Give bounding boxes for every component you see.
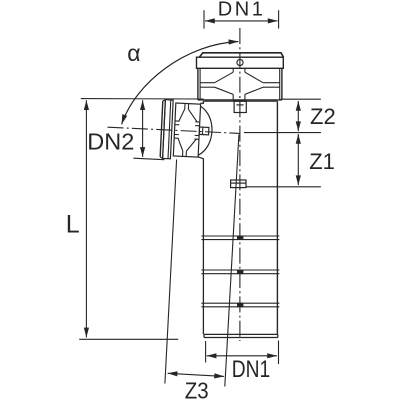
svg-text:DN2: DN2 [87, 128, 134, 154]
DN2 bottom extension line [133, 158, 164, 160]
main centerline [239, 28, 241, 341]
branch seal rails [175, 120, 179, 122]
svg-text:L: L [66, 210, 80, 238]
branch face band edges [163, 100, 166, 102]
branch seal flares [179, 109, 185, 122]
DN1 top extension lines [204, 10, 279, 28]
Z3 left extension line [165, 160, 177, 384]
branch body outline [173, 103, 200, 157]
pipe rib 1 [201, 236, 279, 240]
top socket flange [197, 57, 284, 68]
branch flange [163, 100, 174, 159]
svg-text:Z2: Z2 [310, 104, 336, 129]
DN1 top dimension line [205, 20, 278, 22]
branch socket [160, 100, 213, 161]
pipe rib 2 [201, 270, 279, 274]
top socket stem [234, 101, 246, 112]
branch seal neck [184, 103, 186, 108]
svg-text:DN1: DN1 [218, 0, 266, 20]
branch saddle arc [198, 106, 213, 156]
L and DN2 top extension line [81, 98, 204, 100]
branch centerline [108, 127, 241, 133]
top socket seal neck [233, 68, 245, 100]
DN1 bottom dimension line [207, 355, 277, 357]
branch face line [160, 101, 163, 157]
L bottom extension line [79, 338, 178, 340]
svg-text:DN1: DN1 [232, 355, 270, 383]
L dimension line [85, 100, 87, 337]
branch bottom shoulder [198, 157, 204, 159]
flange screw circle [237, 59, 243, 65]
top socket body inner side lines [200, 68, 280, 100]
Z1 dimension line [297, 134, 299, 185]
pipe shoulder line below socket [203, 100, 277, 102]
top socket seal rails [200, 83, 279, 88]
Z2 dimension line [297, 101, 299, 131]
top socket rim band [199, 53, 283, 57]
Z3 dimension line [168, 373, 225, 376]
pipe bottom band [204, 334, 278, 337]
DN2 dimension line [142, 100, 144, 157]
top socket body outline [198, 68, 282, 100]
branch stem [199, 127, 209, 135]
branch flange inner line [168, 100, 171, 159]
pipe rib 3 [201, 303, 279, 307]
svg-text:α: α [127, 40, 140, 66]
alpha angle arc [122, 42, 239, 125]
insertion depth marker on pipe [231, 180, 246, 188]
pipe right edge [276, 101, 278, 334]
Z middle extension line [244, 132, 321, 134]
Z1 bottom extension line [246, 186, 321, 188]
Z2 top extension line [281, 98, 321, 100]
svg-text:Z3: Z3 [185, 377, 209, 400]
top socket seal flares [215, 72, 263, 94]
branch face band inner line [163, 100, 166, 159]
Z3 right extension line [225, 135, 239, 387]
DN1 bottom extension lines [206, 341, 279, 365]
branch top shoulder [200, 102, 204, 104]
pipe left edge [202, 101, 204, 334]
svg-text:Z1: Z1 [309, 149, 335, 174]
